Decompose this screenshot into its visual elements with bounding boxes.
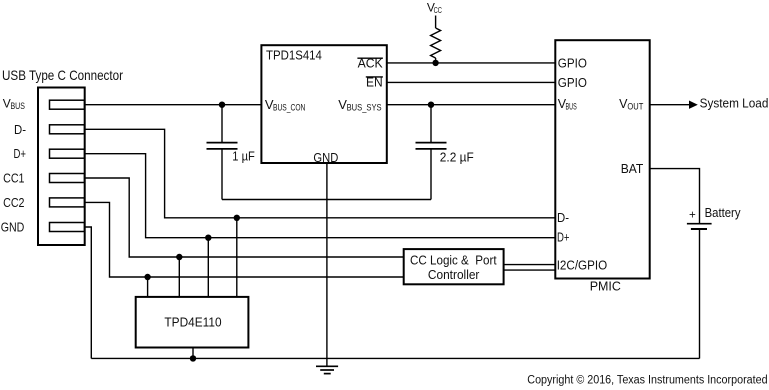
svg-text:D+: D+	[557, 231, 570, 245]
wire TPD4E110 pin1 (CC2 line)	[147, 277, 149, 297]
junction D-/TPD4E110	[234, 215, 240, 221]
svg-text:TPD4E110: TPD4E110	[164, 316, 221, 330]
svg-text:CC: CC	[434, 5, 442, 15]
wire resistor to ACK line	[435, 58, 437, 63]
CC logic and port controller body	[404, 249, 504, 284]
ground symbol	[316, 365, 338, 367]
svg-text:2.2 µF: 2.2 µF	[440, 150, 474, 164]
wire GND from connector to bottom rail	[85, 227, 92, 358]
junction TPD4E110/bottom rail	[190, 355, 196, 361]
svg-text:D-: D-	[557, 211, 569, 225]
svg-text:Controller: Controller	[428, 268, 480, 282]
connector pin D+	[50, 149, 85, 158]
capacitor C1 1uF	[221, 105, 223, 143]
wire I2C bus line 1	[504, 264, 556, 266]
svg-text:BUS: BUS	[566, 102, 577, 112]
svg-text:+: +	[689, 207, 696, 221]
svg-text:GND: GND	[313, 151, 338, 165]
wire TPD4E110 pin4 (D- line)	[236, 218, 238, 297]
svg-text:BUS_SYS: BUS_SYS	[347, 102, 382, 112]
IC U2 TPD4E110 body	[136, 297, 249, 348]
wire CC2 from connector to CC logic	[85, 202, 404, 277]
IC U1 TPD1S414 body	[261, 45, 386, 163]
connector pin CC2	[50, 198, 85, 207]
capacitor C2 2.2uF	[430, 105, 432, 143]
wire D- from connector to PMIC	[85, 129, 556, 218]
svg-text:I2C/GPIO: I2C/GPIO	[557, 258, 608, 272]
svg-text:TPD1S414: TPD1S414	[266, 48, 322, 62]
wire VCC to resistor	[435, 16, 437, 29]
svg-text:CC1: CC1	[3, 172, 24, 186]
connector pin VBUS	[50, 100, 85, 109]
svg-text:System Load: System Load	[700, 96, 769, 110]
junction VBUS/C1	[219, 102, 225, 108]
svg-text:CC2: CC2	[3, 196, 24, 210]
svg-text:Copyright © 2016, Texas Instru: Copyright © 2016, Texas Instruments Inco…	[527, 374, 767, 386]
svg-text:PMIC: PMIC	[590, 279, 621, 293]
svg-text:GPIO: GPIO	[558, 56, 587, 70]
wire VOUT to system load	[650, 104, 692, 106]
battery BT1 long plate	[687, 223, 712, 225]
svg-text:CC Logic & Port: CC Logic & Port	[410, 253, 497, 267]
wire EN to PMIC GPIO	[387, 81, 556, 83]
wire CC1 from connector to CC logic	[85, 178, 404, 257]
wire D+ from connector to PMIC	[85, 154, 556, 238]
svg-text:GND: GND	[1, 220, 25, 234]
svg-text:BUS: BUS	[11, 101, 25, 111]
wire BAT to battery	[650, 169, 700, 223]
wire TPD4E110 pin3 (D+ line)	[207, 238, 209, 297]
resistor R1 pull-up	[431, 28, 441, 58]
connector pin GND	[50, 223, 85, 232]
junction D+/TPD4E110	[205, 235, 211, 241]
connector pin CC1	[50, 174, 85, 183]
wire TPD4E110 ground pin	[192, 348, 194, 359]
wire I2C bus line 2	[504, 269, 556, 271]
connector pin D-	[50, 125, 85, 134]
svg-text:D-: D-	[14, 123, 26, 137]
battery BT1 short plate	[691, 228, 707, 230]
junction CC2/TPD4E110	[144, 274, 150, 280]
svg-text:OUT: OUT	[627, 101, 643, 111]
svg-text:USB Type C Connector: USB Type C Connector	[2, 67, 123, 83]
wire ACK to PMIC GPIO	[387, 62, 556, 64]
wire TPD1S414 GND down to earth	[326, 163, 328, 366]
wire VBUS_SYS to PMIC VBUS	[387, 104, 556, 106]
svg-text:BUS_CON: BUS_CON	[273, 102, 305, 112]
svg-text:D+: D+	[14, 147, 27, 161]
connector J1 body	[38, 88, 85, 246]
junction resistor/ACK	[432, 60, 438, 66]
IC U3 PMIC body	[555, 40, 649, 278]
svg-text:GPIO: GPIO	[558, 76, 587, 90]
junction CC1/TPD4E110	[176, 254, 182, 260]
junction VBUS_SYS/C2	[428, 102, 434, 108]
svg-text:Battery: Battery	[705, 206, 742, 220]
arrowhead system load	[689, 101, 698, 109]
wire capacitor ground rail	[222, 199, 431, 201]
svg-text:1 µF: 1 µF	[232, 149, 255, 163]
wire TPD4E110 pin2 (CC1 line)	[178, 257, 180, 297]
svg-text:BAT: BAT	[621, 162, 644, 176]
wire battery to bottom rail	[699, 230, 701, 358]
wire bottom ground rail	[91, 357, 699, 359]
wire VBUS connector to TPD1S414 VBUS_CON	[85, 104, 262, 106]
